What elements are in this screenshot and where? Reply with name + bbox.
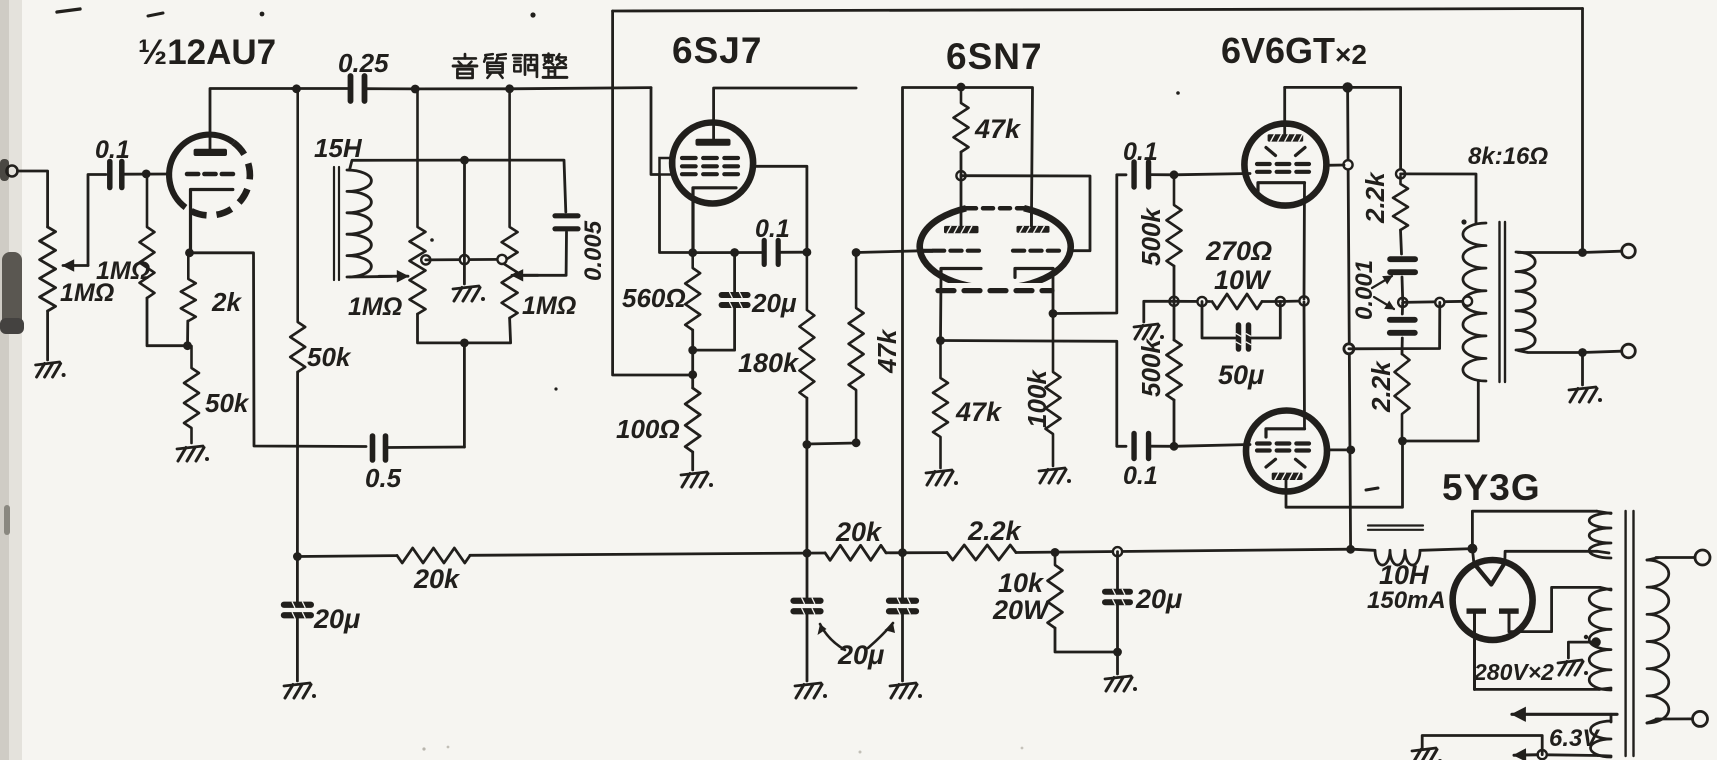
anode right V6 <box>1499 608 1519 631</box>
label 100k rot <box>1022 369 1052 428</box>
resistor 47k plate1 <box>954 87 969 152</box>
ground 50k <box>177 446 209 461</box>
label 0.001 rot <box>1351 260 1378 320</box>
wire plate2 lead <box>1030 210 1033 226</box>
wire 0.5 to pots bottom <box>386 446 465 449</box>
arrow 20u-a <box>818 624 846 650</box>
resistor 47k cathode1 <box>933 341 948 469</box>
label 10W <box>1214 265 1272 295</box>
speaker terminal bottom <box>1622 344 1636 358</box>
wire V1 plate to top <box>210 89 292 149</box>
resistor 180k screen feed <box>799 252 814 398</box>
label 15H <box>314 133 363 163</box>
svg-text:10k: 10k <box>998 568 1045 598</box>
resistor 20k first <box>397 548 470 563</box>
label 5Y3G <box>1442 467 1541 508</box>
ring 500k mid <box>1169 297 1178 306</box>
svg-text:150mA: 150mA <box>1367 587 1446 614</box>
capacitor 0.5 <box>373 436 386 460</box>
label 50u <box>1218 360 1264 390</box>
label 0.1 screen <box>755 215 790 243</box>
wire 20u bottom to cathode node <box>693 306 735 350</box>
choke 15H core <box>334 167 339 280</box>
node V1 cathode <box>185 248 194 257</box>
svg-text:0.005: 0.005 <box>580 220 607 281</box>
plate bar V1 <box>194 149 227 156</box>
node cathode1 <box>936 336 945 345</box>
pot2 wiper arrow <box>512 270 538 281</box>
node 47k bottom <box>852 438 861 447</box>
label 20u first <box>313 604 360 634</box>
svg-text:280V×2: 280V×2 <box>1473 659 1554 685</box>
wire 0.1 to screen node <box>779 251 807 254</box>
label 150mA <box>1367 587 1446 614</box>
wire secondary bottom <box>1518 351 1583 353</box>
wire V4 plate to OPT <box>1285 87 1401 171</box>
envelope bottom dashed cover <box>935 283 1055 296</box>
wire cathode2 lead <box>1052 269 1055 312</box>
wire OPT bottom link <box>1403 381 1479 441</box>
rectifier V6 5Y3G envelope <box>1453 560 1533 640</box>
cathode V2 <box>693 188 736 250</box>
grid2 dashes V3 <box>1013 249 1059 253</box>
plate bar V4 <box>1268 134 1304 141</box>
wire 15H top to ground line <box>350 160 465 170</box>
svg-text:6SN7: 6SN7 <box>946 36 1043 77</box>
ground 100-ohm <box>681 472 713 487</box>
duo-triode V3 6SN7 envelope <box>920 208 1071 288</box>
cathode2 V3 <box>1015 269 1053 278</box>
ring plate1 node <box>956 171 965 180</box>
wire 0.25 to pot1 top <box>365 87 416 90</box>
grid g1 dashes V2 <box>682 172 738 176</box>
PT core <box>1626 511 1634 756</box>
ground volume pot <box>36 362 66 377</box>
svg-text:50k: 50k <box>205 388 250 418</box>
ground 20u-a <box>795 683 827 698</box>
ground 20u-c <box>1105 676 1137 691</box>
ring screen V4 <box>1343 160 1352 169</box>
plate1 bar V3 <box>944 226 979 233</box>
node 2k bottom <box>183 341 192 350</box>
capacitor 0.1 lower coupling <box>1134 434 1149 459</box>
wire 180k to node <box>806 398 809 446</box>
ring rail 20u-c <box>1113 547 1122 556</box>
grid dashes V5 g2 <box>1257 448 1309 452</box>
svg-text:47k: 47k <box>872 328 902 374</box>
wire B+ node link <box>807 443 856 444</box>
scan artifact blobs left edge <box>0 159 24 535</box>
label 0.1 input <box>95 136 130 164</box>
wire choke to 5Y3 <box>1421 549 1472 551</box>
node 560 bottom <box>688 346 697 355</box>
wire V5 cathode to bus <box>1303 302 1306 429</box>
label 270-ohm <box>1205 236 1272 266</box>
label 20k first <box>413 564 461 594</box>
label 280Vx2 <box>1473 659 1554 685</box>
ring center tap riser <box>1435 298 1444 307</box>
pentode V2 6SJ7 envelope <box>672 123 753 204</box>
wire rail to 2.2k <box>886 551 947 554</box>
svg-text:1MΩ: 1MΩ <box>348 293 402 321</box>
resistor 2.2k rail <box>947 545 1016 560</box>
label 0.1 upper <box>1123 138 1158 166</box>
svg-text:20μ: 20μ <box>751 288 797 318</box>
cathode1 V3 <box>941 269 981 278</box>
wire 2.2k to 0.001 <box>1401 230 1402 254</box>
node rail start <box>293 552 302 561</box>
arrow 6.3V lower <box>1514 749 1538 760</box>
node B+ takeoff <box>1467 544 1477 554</box>
beam plates V5 <box>1266 459 1305 467</box>
bottom faint specks <box>422 746 1023 754</box>
svg-text:2.2k: 2.2k <box>967 516 1023 546</box>
ground 100k <box>1039 468 1071 483</box>
label 500k upper rot <box>1136 207 1166 266</box>
wire 270 to ring <box>1262 300 1280 303</box>
speaker terminal top <box>1622 244 1636 258</box>
capacitor 50u bypass <box>1236 325 1252 349</box>
wire filament left leg <box>1472 549 1473 563</box>
resistor 50k plate load V1 <box>290 89 305 372</box>
svg-text:500k: 500k <box>1136 207 1166 266</box>
wire to speaker terminal bottom <box>1583 351 1622 352</box>
wire 1M bottom to cathode return <box>147 298 185 346</box>
svg-text:20μ: 20μ <box>1135 584 1182 614</box>
resistor 2.2k upper <box>1393 176 1408 230</box>
label 6.3V <box>1549 725 1600 752</box>
wire center tap line <box>1403 301 1466 302</box>
PT primary terminal top <box>1695 550 1710 565</box>
node 180k bottom <box>803 440 812 449</box>
wire 20u-c to junction <box>1116 603 1119 674</box>
resistor 500k lower <box>1167 340 1182 400</box>
svg-text:20W: 20W <box>992 595 1051 625</box>
PT HV winding <box>1589 587 1611 690</box>
wire signal down to V2 grid <box>651 88 660 175</box>
label 47k plate1 <box>974 114 1022 144</box>
wire 0.1 to lower grid node <box>1149 445 1175 448</box>
plate bar V2 <box>696 139 731 146</box>
choke 10H core <box>1368 526 1423 530</box>
capacitor 20u cathode bypass <box>722 292 748 308</box>
wire suppressor tie <box>660 175 689 253</box>
tetrode V5 6V6 lower envelope <box>1246 411 1327 492</box>
label 0.1 lower <box>1123 462 1158 490</box>
grid dashes V1 <box>187 172 233 177</box>
label 2k <box>211 287 242 317</box>
label 10H <box>1379 560 1429 590</box>
wire wiper to 0.1 cap <box>88 175 106 266</box>
svg-text:1MΩ: 1MΩ <box>522 292 576 320</box>
wire plate out to V3 grid <box>856 251 920 253</box>
wire 15H bottom to pot1 wiper <box>350 275 393 278</box>
plate2 bar V3 <box>1017 226 1050 233</box>
grid cap box V2 <box>660 158 675 175</box>
svg-text:0.25: 0.25 <box>338 48 389 78</box>
svg-text:2.2k: 2.2k <box>1360 171 1390 224</box>
wire cathode1 to lower 0.1 <box>941 341 1127 447</box>
wire 500k to lower grid node <box>1173 400 1176 446</box>
wire left anode to HV bottom <box>1475 688 1600 691</box>
arrow 0.001 upper <box>1372 276 1392 288</box>
capacitor 0.001 lower <box>1390 320 1415 333</box>
wire 20u top lead <box>733 253 736 295</box>
svg-text:×2: ×2 <box>1335 39 1367 70</box>
ground HV center tap <box>1558 660 1588 675</box>
label 20u cathode <box>751 288 797 318</box>
wire V4 plate lead <box>1283 87 1286 134</box>
OPT primary coil <box>1463 223 1486 381</box>
node lower grid <box>1170 442 1179 451</box>
wire V5 plate lead <box>1286 443 1403 507</box>
svg-text:180k: 180k <box>738 348 800 378</box>
wire center tap vertical <box>463 160 466 284</box>
grid dashes V4 g2 <box>1257 162 1309 166</box>
arrow 0.001 lower <box>1374 297 1394 309</box>
ring 270 left <box>1197 297 1206 306</box>
grid dashes V5 g1 <box>1257 441 1309 445</box>
wire 10k bottom <box>1055 628 1114 652</box>
wire lower grid to V5 <box>1174 445 1250 447</box>
resistor 2.2k lower <box>1395 354 1410 441</box>
wire 2k to 50k <box>186 321 189 347</box>
label 47k V2 rot <box>872 328 902 374</box>
wire secondary bottom to ground <box>1581 353 1584 386</box>
node screen V5 <box>1346 446 1355 455</box>
svg-text:6.3V: 6.3V <box>1549 725 1600 752</box>
wire 50k to B+ rail <box>296 372 299 557</box>
resistor 100 feedback <box>685 388 700 452</box>
wire 0.001 to mid ring <box>1401 277 1404 300</box>
svg-text:½12AU7: ½12AU7 <box>138 33 276 72</box>
ground 20u first <box>284 683 316 698</box>
potentiometer 1M volume <box>40 227 56 311</box>
wire right anode to HV top <box>1509 587 1600 631</box>
B+ rail left segment <box>297 554 397 558</box>
PT primary terminal bottom <box>1693 711 1708 726</box>
top-left smudge marks <box>57 9 1588 639</box>
wire V4 cathode to bus <box>1303 183 1306 299</box>
label tone-adjust kanji <box>453 54 567 78</box>
svg-text:0.1: 0.1 <box>1123 462 1158 490</box>
resistor 500k upper <box>1167 175 1182 266</box>
ground OPT secondary <box>1569 387 1602 402</box>
volume pot wiper arrow <box>63 260 88 271</box>
wire filament right to 5V bottom <box>1505 551 1597 563</box>
wire 20u-a to ground <box>806 612 809 681</box>
ring 6.3V tap <box>1538 750 1547 759</box>
label 50k plate <box>307 342 352 372</box>
wire feedback left drop <box>613 11 688 375</box>
label 1M tone-1 <box>348 293 402 321</box>
node rail 20u-b <box>898 548 907 557</box>
resistor 1M grid leak V1 <box>140 175 155 299</box>
svg-text:560Ω: 560Ω <box>622 283 686 313</box>
capacitor 20u first filter <box>284 557 311 619</box>
wire signal to 6SJ7 grid corner <box>510 88 651 89</box>
wire 6.3V lower <box>1547 753 1598 757</box>
resistor 47k plate load V2 <box>849 250 864 443</box>
wire screen node down to rail <box>806 446 809 553</box>
wire 0.1 cap to grid node <box>123 173 171 176</box>
label 6SN7 <box>946 36 1043 77</box>
wire V5 screen <box>1327 448 1351 451</box>
node upper grid <box>1170 170 1179 179</box>
capacitor 20u-a <box>794 553 821 614</box>
wire 100 to ground <box>691 452 694 470</box>
label 0.25 <box>338 48 389 78</box>
input jack terminal <box>7 166 18 177</box>
svg-text:0.001: 0.001 <box>1351 260 1378 320</box>
svg-text:20k: 20k <box>835 517 883 547</box>
svg-text:0.1: 0.1 <box>95 136 130 164</box>
wire PT primary top <box>1656 556 1695 559</box>
resistor 50k cathode bias <box>184 346 199 443</box>
capacitor 0.001 upper <box>1390 259 1415 272</box>
ring OPT top node <box>1396 169 1405 178</box>
node tone pot1 top <box>411 85 420 94</box>
svg-text:20μ: 20μ <box>313 604 360 634</box>
label 100-ohm <box>616 414 680 444</box>
svg-text:1MΩ: 1MΩ <box>60 279 114 307</box>
node rail 10k <box>1051 548 1060 557</box>
svg-text:2k: 2k <box>211 287 242 317</box>
tetrode V4 6V6 upper envelope <box>1244 124 1326 206</box>
arrow 6.3V upper <box>1512 708 1617 722</box>
wire V4 screen <box>1326 164 1344 167</box>
svg-text:0.1: 0.1 <box>755 215 790 243</box>
node V2 cathode <box>688 248 697 257</box>
label 8k-16ohm <box>1468 143 1548 170</box>
plate bar V5 <box>1272 473 1303 480</box>
resistor 10k bleeder <box>1048 552 1063 628</box>
wire 20u-b to ground <box>901 612 904 681</box>
filament V6 <box>1474 563 1505 585</box>
triode V1 half-12AU7 envelope <box>169 135 250 216</box>
ground tone center <box>453 286 485 301</box>
wire pot bottom to ground <box>46 311 49 360</box>
anode left V6 <box>1467 608 1487 689</box>
wire plate node to 0.25 <box>292 87 351 90</box>
OPT secondary coil <box>1516 252 1535 350</box>
wire 50u left <box>1202 302 1237 339</box>
svg-text:2.2k: 2.2k <box>1366 360 1396 413</box>
wire pot1-top to pot2-top <box>415 87 509 90</box>
ring cathode bus <box>1299 296 1308 305</box>
node screen junction <box>803 248 812 257</box>
node 47k plate1 top <box>957 83 966 92</box>
pot1 wiper arrow <box>379 271 408 282</box>
capacitor 0.25 coupling <box>351 76 365 101</box>
wire HV center tap <box>1568 642 1596 658</box>
node V2 plate out <box>852 248 861 257</box>
svg-text:20k: 20k <box>413 564 461 594</box>
wire rail choke left <box>1352 549 1374 550</box>
resistor 100k cathode2 <box>1046 314 1061 467</box>
node secondary top <box>1578 248 1587 257</box>
label 20W <box>992 595 1051 625</box>
potentiometer 1M tone-2 <box>502 89 518 318</box>
svg-text:50μ: 50μ <box>1218 360 1264 390</box>
grid1 dashes V3 <box>920 249 979 253</box>
wire 0.005 to pot2 wiper <box>524 232 567 275</box>
wire mid to ground <box>1144 301 1174 322</box>
wire g2 screen lead <box>753 166 807 248</box>
label 0.005 <box>580 220 607 281</box>
wire cathode2 to upper 0.1 <box>1053 175 1126 314</box>
ring OPT center tap <box>1463 297 1472 306</box>
svg-text:5Y3G: 5Y3G <box>1442 467 1541 508</box>
wire mid ring to lower 0.001 <box>1401 302 1404 314</box>
label 20u-c <box>1135 584 1182 614</box>
wire B+ to center tap <box>1349 302 1440 348</box>
ground 500k mid <box>1134 324 1164 339</box>
wire 560 to 100 node <box>691 330 694 388</box>
label 47k cathode1 <box>955 397 1003 427</box>
wire pot bottoms <box>418 314 511 343</box>
svg-text:100Ω: 100Ω <box>616 414 680 444</box>
node plate load top <box>292 84 301 93</box>
label 6SJ7 <box>672 30 762 71</box>
ring center tap <box>460 255 469 264</box>
cathode V1 <box>191 190 233 251</box>
capacitor 20u-b <box>889 553 916 615</box>
label 2.2k upper rot <box>1360 171 1390 224</box>
label 2.2k lower rot <box>1366 360 1396 413</box>
wire V1 cathode to 0.5 <box>190 253 367 447</box>
wire 50u right <box>1250 302 1280 339</box>
node pot bottoms <box>460 339 469 348</box>
cathode V4 <box>1258 183 1305 192</box>
PT primary winding <box>1647 558 1669 723</box>
beam plates V4 <box>1266 148 1305 156</box>
wire plate1 to grid2 <box>961 176 1090 251</box>
wire 20u first to ground <box>296 616 299 681</box>
B+ rail middle segment <box>470 553 825 555</box>
wire cathode node to 0.1 <box>693 251 764 254</box>
node 10k-20u junction <box>1113 648 1122 657</box>
svg-text:10W: 10W <box>1214 265 1272 295</box>
wire feedback top rail <box>613 9 1583 12</box>
node 20u top <box>730 248 739 257</box>
label 0.5 <box>365 463 402 493</box>
svg-text:0.5: 0.5 <box>365 463 402 493</box>
label 50k cathode <box>205 388 250 418</box>
ring pot2 tap <box>497 255 506 264</box>
capacitor 20u-c <box>1105 552 1130 606</box>
node plate-screen top <box>1342 82 1352 92</box>
svg-text:10H: 10H <box>1379 560 1429 590</box>
resistor 2k cathode <box>181 254 196 321</box>
wire screen bus <box>1348 87 1351 549</box>
OPT core <box>1500 222 1506 382</box>
label 20u-ab <box>837 640 884 670</box>
label 560-ohm <box>622 283 686 313</box>
ground 47k cathode1 <box>926 470 958 485</box>
PT 6.3V winding <box>1590 714 1611 757</box>
svg-text:270Ω: 270Ω <box>1205 236 1272 266</box>
label 180k <box>738 348 800 378</box>
resistor 560 cathode V2 <box>685 253 700 330</box>
svg-text:0.1: 0.1 <box>1123 138 1158 166</box>
node cathode2 <box>1049 309 1058 318</box>
wire rail past 2.2k <box>1016 549 1352 552</box>
wire upper grid to V4 <box>1174 174 1250 175</box>
choke 15H coil <box>347 170 371 277</box>
capacitor 0.1 input <box>110 162 122 188</box>
cathode V5 <box>1266 429 1305 437</box>
